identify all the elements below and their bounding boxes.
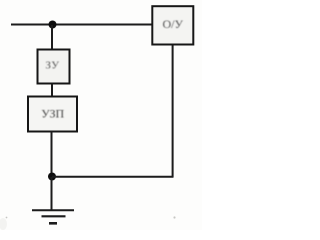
wire (right vertical riser from O/U block bottom) (172, 45, 174, 178)
ground (32, 210, 74, 223)
node (bottom junction dot) (48, 173, 56, 181)
wire (bottom horizontal return to right riser) (52, 176, 173, 178)
wire (bottom junction down to ground) (51, 177, 53, 210)
wire (junction down to ZU block) (51, 25, 53, 50)
wire (UZP down to bottom junction) (51, 132, 53, 178)
scan speck left edge (6, 217, 8, 219)
node (top junction dot) (49, 21, 57, 29)
block O/U (О/У operational amplifier) (152, 6, 193, 44)
block ZU (ЗУ) (38, 50, 70, 84)
scan smudge bottom-left corner (0, 218, 7, 230)
block UZP (УЗП) (28, 97, 77, 132)
svg-text:О/У: О/У (162, 17, 183, 31)
wire (ZU to UZP) (51, 84, 53, 98)
svg-text:УЗП: УЗП (41, 107, 64, 121)
svg-text:ЗУ: ЗУ (45, 60, 59, 72)
wire (top horizontal bus from left edge to O/U block) (11, 24, 153, 26)
scan speck near bottom right riser (173, 216, 175, 218)
